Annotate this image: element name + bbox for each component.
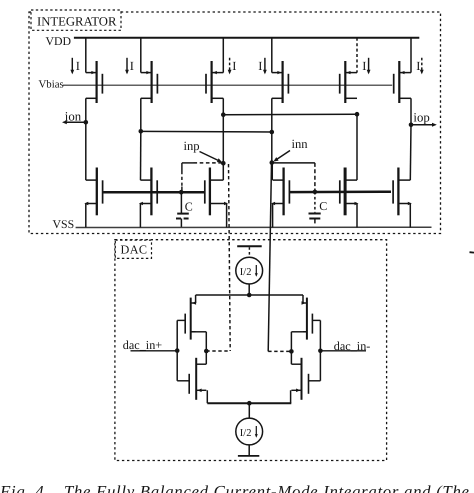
cross wire A to inn vertical bbox=[141, 130, 272, 133]
svg-text:I: I bbox=[130, 59, 134, 73]
DAC dashed box bbox=[115, 240, 387, 461]
VDD rail bbox=[74, 37, 419, 39]
integrator dashed box bbox=[29, 12, 441, 234]
transistor M6 bbox=[394, 38, 411, 103]
svg-text:ion: ion bbox=[65, 109, 82, 123]
wire QD4 drain to tail rail bbox=[290, 390, 292, 403]
svg-text:I: I bbox=[362, 59, 366, 73]
Vbias label bbox=[39, 79, 64, 91]
svg-text:C: C bbox=[185, 200, 193, 214]
label dac_in+ bbox=[123, 338, 177, 352]
label dac_in- bbox=[320, 339, 370, 353]
DAC source rail bbox=[196, 294, 303, 296]
capacitor C2 bbox=[309, 192, 328, 224]
current label I (M1) bbox=[70, 58, 80, 75]
node F (cap C2 tap) bbox=[313, 190, 318, 195]
node C (inn upper junction) bbox=[270, 130, 275, 135]
transistor M5 bbox=[340, 38, 357, 103]
node E (cap C1 tap) bbox=[179, 190, 184, 195]
node B (M3 drain junction) bbox=[221, 112, 226, 117]
svg-text:Vbias: Vbias bbox=[39, 79, 64, 91]
wire rail to QD1 source bbox=[195, 295, 197, 303]
INTEGRATOR label box bbox=[31, 10, 121, 30]
QD2/QD4 gate tie (dac_in-) bbox=[309, 320, 323, 380]
gate line left mirror bbox=[103, 191, 205, 194]
svg-text:I/2: I/2 bbox=[240, 267, 252, 278]
node inn bbox=[270, 137, 309, 165]
current source I/2 upper bbox=[236, 247, 263, 295]
svg-text:dac_in-: dac_in- bbox=[334, 339, 371, 353]
svg-text:iop: iop bbox=[413, 111, 429, 125]
node J (midpoint- to inn) bbox=[268, 349, 294, 354]
current label I (M6) bbox=[416, 58, 424, 75]
DAC supply bar bbox=[237, 245, 262, 247]
transistor M3 bbox=[206, 38, 223, 103]
inp line to DAC (dashed) bbox=[229, 164, 231, 351]
node G (sources rail tap) bbox=[247, 293, 252, 298]
node H (midpoint+ to inp) bbox=[204, 349, 230, 354]
inn line to DAC bbox=[268, 164, 271, 352]
node ion bbox=[62, 109, 88, 124]
node inp bbox=[184, 139, 226, 166]
VSS rail bbox=[76, 226, 432, 228]
svg-text:DAC: DAC bbox=[121, 243, 148, 257]
node D (M5 drain junction) bbox=[355, 112, 360, 180]
VDD label bbox=[46, 34, 72, 48]
svg-text:I: I bbox=[416, 59, 420, 73]
current label I (M4) bbox=[258, 58, 267, 75]
node K (tail tap) bbox=[247, 401, 252, 406]
svg-text:I: I bbox=[76, 59, 80, 73]
current label I (M2) bbox=[125, 58, 134, 75]
transistor QD2 bbox=[302, 298, 313, 340]
wire M3 drain to inp node bbox=[222, 98, 224, 163]
svg-text:Fig. 4. The Fully Balanced C: Fig. 4. The Fully Balanced Current-Mode … bbox=[0, 482, 470, 493]
Vbias line bbox=[63, 84, 392, 86]
wire QD1 drain to midpoint+ bbox=[191, 332, 207, 364]
figure caption (cut off) bbox=[0, 482, 470, 493]
transistor QD4 bbox=[291, 358, 308, 400]
transistor M7 bbox=[84, 168, 102, 228]
cross wire B to M5 drain bbox=[223, 113, 357, 116]
svg-text:I/2: I/2 bbox=[240, 428, 252, 439]
transistor M9 bbox=[205, 163, 228, 227]
svg-text:inn: inn bbox=[292, 137, 309, 151]
VSS label bbox=[53, 217, 75, 231]
node iop bbox=[409, 111, 437, 128]
transistor M8 bbox=[139, 168, 157, 228]
wire inn node to M10 drain bbox=[271, 163, 273, 180]
stray scan mark (right edge) bbox=[470, 251, 474, 253]
transistor M2 bbox=[141, 38, 158, 103]
node A (M2 drain junction) bbox=[139, 129, 144, 134]
wire QD3 drain to tail rail bbox=[206, 390, 208, 403]
wire M4 drain to inn node bbox=[271, 98, 273, 163]
current label I (M3) bbox=[228, 58, 237, 75]
gate line right mirror bbox=[290, 190, 391, 193]
wire M2 drain to M8 bbox=[140, 98, 142, 180]
svg-text:inp: inp bbox=[184, 139, 200, 153]
wire inn node to cap C2 tap bbox=[272, 163, 315, 192]
wire rail to QD2 source bbox=[302, 295, 304, 303]
transistor M1 bbox=[86, 38, 103, 103]
QD1/QD3 gate tie (dac_in+) bbox=[175, 320, 189, 380]
svg-text:C: C bbox=[319, 199, 327, 213]
svg-text:INTEGRATOR: INTEGRATOR bbox=[37, 14, 117, 28]
ground bar (lower I/2) bbox=[238, 455, 259, 457]
wire inp node to cap C1 tap (dashed L) bbox=[182, 163, 222, 192]
current label I (M5) bbox=[362, 58, 370, 75]
wire M6 drain to iop to M12 bbox=[409, 98, 412, 180]
transistor QD3 bbox=[189, 358, 206, 400]
svg-text:VSS: VSS bbox=[53, 217, 75, 231]
wire QD2 drain to midpoint- bbox=[291, 332, 307, 364]
capacitor C1 bbox=[176, 192, 193, 227]
transistor QD1 bbox=[185, 298, 196, 340]
svg-text:VDD: VDD bbox=[46, 34, 72, 48]
current source I/2 lower bbox=[236, 403, 263, 455]
transistor M11 bbox=[340, 168, 359, 228]
transistor M4 bbox=[272, 38, 289, 103]
transistor M10 bbox=[271, 168, 289, 228]
svg-text:I: I bbox=[232, 59, 236, 73]
DAC tail rail bbox=[207, 402, 291, 404]
wire M1 drain to ion to M7 bbox=[85, 98, 87, 180]
DAC label box bbox=[115, 240, 151, 258]
svg-text:I: I bbox=[258, 59, 262, 73]
transistor M12 bbox=[393, 168, 412, 228]
